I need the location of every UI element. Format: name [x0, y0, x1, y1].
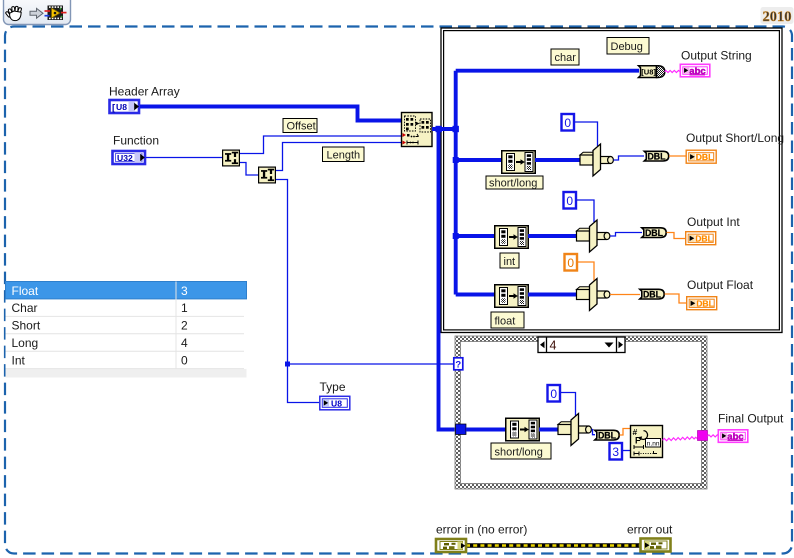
- svg-text:float: float: [495, 316, 516, 328]
- wire branch to case selector terminal: [288, 363, 454, 365]
- indicator Final Output abc: [718, 430, 748, 443]
- wire array subset output to frame trunk: [432, 127, 456, 131]
- case selector terminal ?: [454, 358, 463, 371]
- svg-text:error out: error out: [627, 523, 673, 537]
- wire short/long to cast row 1: [535, 158, 580, 162]
- 2010 version watermark: [761, 7, 794, 25]
- Debug frame (double-border structure): [441, 28, 782, 333]
- error wire: [466, 543, 640, 548]
- constant 0 (row 1): [562, 114, 575, 131]
- type cast (row 1): [580, 144, 613, 176]
- indicator Output Float DBL: [687, 297, 717, 310]
- lookup table: [6, 282, 247, 378]
- wire cast out to DBL row 3 (orange): [610, 294, 640, 296]
- svg-text:Short: Short: [12, 319, 41, 333]
- svg-text:Float: Float: [12, 284, 39, 298]
- svg-text:Function: Function: [113, 134, 159, 148]
- label Header Array: [109, 85, 180, 99]
- label Output Float: [687, 278, 754, 292]
- svg-text:Type: Type: [320, 380, 346, 394]
- wire 0 to cast row 1: [575, 122, 598, 146]
- toolbar hand tool icon: [5, 6, 22, 20]
- conversion DBL (case): [595, 430, 619, 440]
- svg-text:U8: U8: [116, 102, 127, 112]
- tunnel (array into case): [456, 424, 467, 435]
- conversion DBL (row 3): [640, 289, 664, 299]
- label short/long (case): [491, 443, 551, 459]
- label float: [491, 312, 524, 328]
- junction on type wire: [285, 362, 290, 367]
- svg-text:0: 0: [567, 256, 574, 270]
- wire pink squiggle format to tunnel: [663, 437, 698, 441]
- label short/long (row 1): [486, 176, 543, 190]
- svg-text:error in (no error): error in (no error): [436, 523, 527, 537]
- svg-text:short/long: short/long: [495, 447, 543, 459]
- wire S2 high byte to Length input: [276, 143, 401, 171]
- indicator Output String abc: [680, 64, 710, 77]
- tunnel (string out of case): [698, 431, 708, 441]
- svg-text:int: int: [504, 256, 516, 268]
- wire short/long to cast (case): [539, 428, 558, 432]
- wire S2 low byte down to Type / case selector: [276, 180, 319, 403]
- junction trunk row2: [453, 233, 459, 239]
- split number S2: [259, 167, 276, 183]
- case selector label "4": [538, 337, 625, 353]
- split number S1: [223, 150, 240, 166]
- svg-text:[U8]: [U8]: [641, 68, 656, 77]
- type cast (row 2): [577, 220, 610, 252]
- svg-text:3: 3: [181, 284, 188, 298]
- label error out: [627, 523, 673, 537]
- junction outside frame: [436, 126, 442, 132]
- subVI float (row 3): [495, 285, 529, 308]
- svg-text:Int: Int: [12, 353, 26, 367]
- array subset function: [402, 113, 433, 147]
- subVI short/long (row 1): [502, 151, 536, 174]
- svg-text:U8: U8: [331, 398, 342, 408]
- type cast (row 3): [577, 279, 610, 311]
- wire S1 low byte to S2: [240, 163, 258, 176]
- label char: [551, 49, 579, 65]
- control error in cluster: [436, 539, 466, 552]
- wire S1 high byte to Offset input: [240, 136, 401, 154]
- label int: [500, 253, 519, 268]
- subVI short/long (case): [506, 418, 540, 441]
- control Header Array [U8]: [110, 100, 140, 114]
- svg-text:Output String: Output String: [681, 49, 752, 63]
- byte array to string function: [639, 66, 665, 78]
- constant 0 (row 2): [564, 192, 577, 209]
- svg-text:Output Short/Long: Output Short/Long: [686, 131, 784, 145]
- format number to string function: [631, 426, 663, 458]
- wire float to cast row 3: [528, 293, 576, 297]
- svg-text:?: ?: [455, 360, 461, 371]
- svg-text:Output Float: Output Float: [687, 278, 754, 292]
- svg-text:1: 1: [181, 301, 188, 315]
- wire string squiggle to Output String: [665, 70, 680, 72]
- conversion DBL (row 2): [642, 228, 666, 238]
- wire inner trunk (array): [432, 71, 639, 295]
- type cast (case): [558, 414, 591, 446]
- subVI int (row 2): [495, 226, 529, 249]
- svg-text:4: 4: [181, 336, 188, 350]
- svg-text:Long: Long: [12, 336, 39, 350]
- label Output Short/Long: [686, 131, 784, 145]
- wire DBL to indicator row 2 (orange): [667, 233, 686, 239]
- svg-text:0: 0: [181, 353, 188, 367]
- wire int to cast row 2: [528, 234, 576, 238]
- label Offset: [283, 119, 317, 133]
- control Function U32: [113, 151, 146, 164]
- constant 0 orange (row 3): [565, 254, 578, 271]
- svg-text:Final Output: Final Output: [718, 412, 784, 426]
- svg-text:n.nn: n.nn: [647, 440, 660, 447]
- toolbar panel: [4, 0, 71, 25]
- svg-text:0: 0: [550, 387, 557, 401]
- wire cast out to DBL row 1: [614, 156, 645, 160]
- indicator Type U8: [320, 396, 350, 410]
- toolbar wiring tool icon: [45, 6, 67, 21]
- indicator Output Int DBL: [686, 232, 716, 245]
- constant 0 (case): [548, 385, 561, 402]
- conversion DBL (row 1): [644, 151, 668, 161]
- label error in (no error): [436, 523, 527, 537]
- svg-text:0: 0: [566, 194, 573, 208]
- junction trunk at input: [453, 126, 459, 132]
- indicator Output Short/Long DBL: [686, 150, 716, 163]
- constant 3 (case): [610, 443, 623, 460]
- indicator error out cluster: [641, 539, 671, 552]
- svg-text:3: 3: [612, 445, 619, 459]
- wire cast out to DBL row 2: [610, 233, 642, 237]
- svg-text:Debug: Debug: [611, 41, 643, 53]
- junction trunk row1: [453, 157, 459, 163]
- label Function: [113, 134, 159, 148]
- wire 0 to cast (case): [561, 393, 576, 417]
- label Final Output: [718, 412, 784, 426]
- wire outer trunk down to case structure: [439, 129, 457, 430]
- wire Header Array to Array Subset (thick array wire): [140, 107, 401, 121]
- label Type: [320, 380, 346, 394]
- svg-text:4: 4: [550, 339, 557, 353]
- wire tunnel to short/long (case): [466, 428, 505, 432]
- wire DBL to indicator row 3 (orange): [665, 294, 687, 303]
- svg-text:Output Int: Output Int: [687, 215, 740, 229]
- label Length: [323, 147, 365, 162]
- wire cast out to DBL (case): [592, 430, 596, 435]
- case structure border (checkered): [455, 336, 707, 489]
- wire DBL to indicator row 1 (orange): [669, 155, 686, 157]
- svg-text:U32: U32: [117, 153, 133, 163]
- svg-text:Header Array: Header Array: [109, 85, 180, 99]
- wire pink squiggle tunnel to Final Output: [708, 435, 719, 437]
- wire 0 to cast row 3 (orange): [578, 262, 594, 281]
- svg-text:Length: Length: [327, 150, 361, 162]
- svg-text:Char: Char: [12, 301, 38, 315]
- label Output Int: [687, 215, 740, 229]
- toolbar position/arrow tool icon: [30, 8, 43, 18]
- svg-text:Offset: Offset: [287, 121, 316, 133]
- wire 3 to format icon: [623, 450, 630, 452]
- svg-text:2010: 2010: [763, 9, 792, 25]
- wire DBL to format (orange, case): [620, 429, 631, 436]
- svg-text:short/long: short/long: [489, 178, 537, 190]
- svg-text:0: 0: [564, 116, 571, 130]
- label Debug: [607, 38, 649, 55]
- wire Function to Split Number 1: [146, 157, 222, 159]
- label Output String: [681, 49, 752, 63]
- wire 0 to cast row 2: [577, 200, 594, 222]
- svg-text:2: 2: [181, 319, 188, 333]
- svg-text:char: char: [555, 52, 577, 64]
